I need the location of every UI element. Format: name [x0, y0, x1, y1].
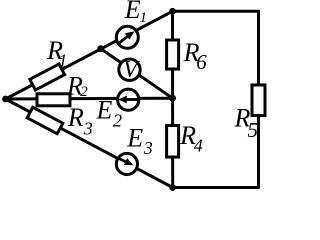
svg-text:1: 1: [140, 10, 148, 26]
svg-text:E: E: [96, 96, 113, 125]
svg-text:E: E: [126, 124, 143, 153]
svg-text:5: 5: [248, 118, 259, 142]
svg-text:2: 2: [113, 111, 122, 131]
svg-text:2: 2: [80, 84, 88, 100]
svg-text:R: R: [67, 103, 84, 132]
svg-text:3: 3: [143, 138, 153, 158]
svg-text:1: 1: [58, 50, 67, 70]
svg-text:E: E: [124, 0, 141, 24]
svg-text:4: 4: [194, 135, 203, 155]
svg-text:3: 3: [83, 119, 93, 139]
svg-text:V: V: [123, 57, 140, 83]
svg-text:6: 6: [196, 50, 207, 74]
